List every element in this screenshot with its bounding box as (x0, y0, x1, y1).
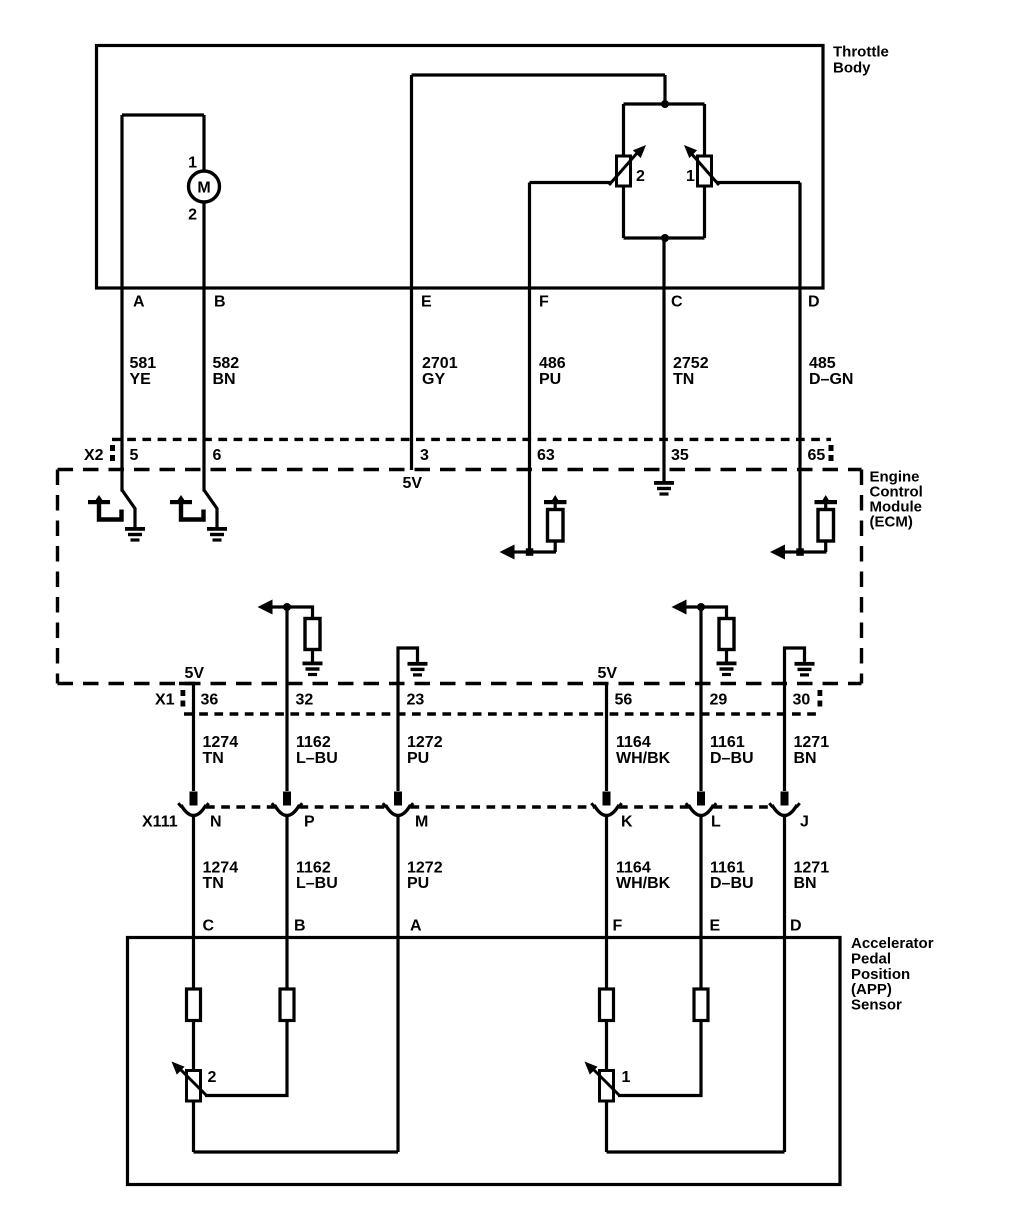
Throttle Body box (97, 46, 824, 289)
svg-text:F: F (539, 294, 549, 311)
node at pin 29 (697, 603, 705, 611)
svg-text:56: 56 (615, 692, 633, 709)
svg-text:BN: BN (213, 371, 236, 388)
svg-text:1161: 1161 (710, 734, 745, 751)
svg-text:X111: X111 (142, 814, 178, 831)
svg-text:Body: Body (833, 59, 871, 76)
svg-text:PU: PU (539, 371, 561, 388)
svg-text:TN: TN (203, 750, 224, 767)
svg-text:1274: 1274 (203, 734, 239, 751)
driver at pin 6: control arrow (177, 495, 185, 501)
potentiometer TP2 wiper arrow (609, 152, 638, 185)
wire K to APP F (605, 816, 608, 989)
svg-text:1164: 1164 (616, 860, 651, 877)
svg-text:1272: 1272 (407, 734, 443, 751)
svg-text:5V: 5V (403, 475, 423, 492)
svg-text:1271: 1271 (794, 860, 830, 877)
connector X2 left end marks (110, 445, 115, 451)
svg-text:485: 485 (809, 355, 836, 372)
potentiometer TP1 body (698, 156, 712, 186)
wire E top link (412, 73, 666, 76)
wire C vertical (662, 238, 665, 468)
pin 29 internal: top link (686, 607, 727, 619)
node at pin 63 (526, 548, 534, 556)
svg-text:L–BU: L–BU (296, 875, 338, 892)
APP Sensor box (128, 938, 841, 1185)
ECM dashed box right (860, 470, 863, 684)
wire 30 to X111 J (783, 714, 786, 791)
svg-text:486: 486 (539, 355, 566, 372)
svg-text:1: 1 (188, 155, 197, 172)
svg-text:B: B (294, 918, 306, 935)
svg-text:PU: PU (407, 750, 429, 767)
svg-text:L–BU: L–BU (296, 750, 338, 767)
wire D vertical (798, 183, 801, 553)
svg-text:B: B (214, 294, 226, 311)
connector X111 terminal L (686, 792, 716, 816)
svg-text:BN: BN (794, 875, 817, 892)
5V tick at pin 36 (179, 682, 196, 685)
wire A (120, 115, 123, 492)
svg-text:36: 36 (201, 692, 219, 709)
svg-text:D–BU: D–BU (710, 875, 754, 892)
svg-text:1161: 1161 (710, 860, 745, 877)
svg-text:E: E (710, 918, 721, 935)
wire from pin 36 (192, 684, 195, 715)
ECM dashed box left (56, 470, 59, 684)
wire F to D link (607, 1150, 785, 1153)
pin 63 pull-up: B+ bar (544, 500, 567, 504)
wire A-B top link (122, 113, 204, 116)
ground at pin 35 (654, 481, 674, 496)
wire C lower (192, 1101, 195, 1152)
pin 29 internal: left arrow (672, 600, 687, 615)
svg-text:P: P (304, 814, 315, 831)
connector X111 terminal N (178, 792, 208, 816)
driver at pin 6: bracket (181, 503, 204, 520)
ground at pin 32 resistor (303, 662, 323, 677)
TPS loop left (622, 104, 625, 238)
svg-text:581: 581 (130, 355, 157, 372)
svg-text:WH/BK: WH/BK (616, 750, 671, 767)
svg-text:J: J (800, 814, 809, 831)
svg-text:YE: YE (130, 371, 152, 388)
wire E to wiper (618, 1021, 701, 1096)
driver at pin 5: control arrow (95, 495, 103, 501)
connector X2 dotted line (112, 438, 831, 441)
pin 23 internal: wire to ground (398, 648, 418, 714)
connector X111 terminal M (383, 792, 413, 816)
connector X2 right end marks (829, 445, 834, 451)
pin 32 internal: wire (285, 607, 288, 714)
svg-text:F: F (613, 918, 623, 935)
connector X111 dotted line (206, 805, 275, 808)
potentiometer APP1 wiper arrow (594, 1070, 619, 1095)
svg-text:2: 2 (208, 1069, 217, 1086)
wire F lower (605, 1101, 608, 1152)
wire P to APP B (285, 816, 288, 989)
wire 56 to X111 K (605, 714, 608, 791)
svg-text:X1: X1 (155, 692, 175, 709)
wire F vertical (528, 183, 531, 553)
wire D horizontal (716, 181, 800, 184)
connector X1 right end marks (818, 690, 823, 696)
svg-text:A: A (410, 918, 422, 935)
pin 65 pull-up: resistor R (824, 504, 827, 552)
connector X1 dotted line (184, 712, 817, 715)
connector X111 terminal P (272, 792, 302, 816)
pin 65 pull-up: B+ arrow (822, 495, 830, 502)
driver at pin 6: control bar (170, 500, 192, 504)
svg-text:M: M (197, 180, 210, 197)
svg-text:2701: 2701 (422, 355, 458, 372)
wire from pin 56 (605, 684, 608, 715)
wire E vertical (410, 75, 413, 470)
wire L to APP E (699, 816, 702, 989)
svg-text:M: M (415, 814, 428, 831)
svg-text:1272: 1272 (407, 860, 443, 877)
pin 63 pull-up: wire and link (530, 550, 557, 553)
svg-text:32: 32 (296, 692, 314, 709)
wire 32 to X111 P (285, 714, 288, 791)
svg-text:3: 3 (420, 447, 429, 464)
wire F horizontal (530, 181, 613, 184)
wire B lower (202, 202, 205, 492)
svg-text:X2: X2 (84, 447, 104, 464)
svg-text:1274: 1274 (203, 860, 239, 877)
svg-text:D–GN: D–GN (809, 371, 853, 388)
wire B upper (202, 115, 205, 171)
driver at pin 6: slant wire (204, 490, 217, 527)
ground at pin 5 driver (125, 527, 145, 542)
svg-text:2752: 2752 (673, 355, 709, 372)
potentiometer APP2 body (187, 1071, 201, 1102)
svg-text:5V: 5V (598, 665, 618, 682)
svg-text:GY: GY (422, 371, 445, 388)
svg-text:C: C (203, 918, 215, 935)
wire E drop to TPS (663, 75, 666, 104)
wire N to APP C (192, 816, 195, 989)
svg-text:WH/BK: WH/BK (616, 875, 671, 892)
ECM dashed box top (58, 468, 862, 471)
svg-text:2: 2 (636, 168, 645, 185)
wire 29 to X111 L (699, 714, 702, 791)
wire C mid (192, 1021, 195, 1071)
wire B to wiper (205, 1021, 287, 1096)
potentiometer TP2 body (617, 156, 631, 186)
node TPS bottom (661, 234, 669, 242)
svg-text:5V: 5V (185, 665, 205, 682)
svg-text:2: 2 (188, 207, 197, 224)
svg-text:(ECM): (ECM) (870, 513, 913, 530)
svg-text:582: 582 (213, 355, 240, 372)
svg-text:Sensor: Sensor (851, 996, 902, 1013)
wire C to A link (194, 1150, 399, 1153)
potentiometer APP1 body (600, 1071, 614, 1102)
svg-text:N: N (210, 814, 222, 831)
svg-text:1164: 1164 (616, 734, 651, 751)
pin 30 internal: wire to ground (785, 648, 805, 714)
TPS loop bottom (624, 236, 705, 239)
resistor on wire E (694, 989, 708, 1021)
ground at pin 30 (795, 662, 815, 677)
svg-text:K: K (621, 814, 633, 831)
svg-text:BN: BN (794, 750, 817, 767)
TPS loop top (624, 102, 705, 105)
connector X111 terminal K (591, 792, 621, 816)
svg-text:1: 1 (686, 168, 695, 185)
wire J to APP D (783, 816, 786, 1152)
driver at pin 5: slant wire (122, 490, 135, 527)
pin 29 internal: wire (699, 607, 702, 714)
svg-text:1: 1 (622, 1069, 631, 1086)
ECM dashed box bottom (58, 682, 862, 685)
node TPS top (661, 100, 669, 108)
svg-text:L: L (711, 814, 721, 831)
wire F mid (605, 1021, 608, 1071)
svg-text:29: 29 (710, 692, 728, 709)
resistor on wire B (280, 989, 294, 1021)
svg-text:30: 30 (793, 692, 811, 709)
svg-text:C: C (671, 294, 683, 311)
ground at pin 29 resistor (717, 662, 737, 677)
svg-text:1271: 1271 (794, 734, 830, 751)
wire M to APP A (396, 816, 399, 1152)
svg-text:TN: TN (203, 875, 224, 892)
connector X111 terminal J (769, 792, 799, 816)
pin 63 pull-up: left arrow (500, 545, 515, 560)
svg-text:35: 35 (671, 447, 689, 464)
driver at pin 5: control bar (88, 500, 110, 504)
node at pin 32 (283, 603, 291, 611)
ground at pin 6 driver (207, 527, 227, 542)
svg-text:E: E (421, 294, 432, 311)
TPS loop right (703, 104, 706, 238)
driver at pin 5: bracket (99, 503, 122, 520)
svg-text:D: D (808, 294, 820, 311)
motor M (189, 171, 220, 202)
pin 29 internal: resistor R (719, 619, 734, 650)
pin 32 internal: left arrow (258, 600, 273, 615)
svg-text:D: D (790, 918, 802, 935)
svg-text:65: 65 (808, 447, 826, 464)
svg-text:TN: TN (673, 371, 694, 388)
potentiometer TP1 wiper arrow (690, 152, 719, 185)
pin 32 internal: resistor R (305, 619, 320, 650)
ground stub at pin 35 (662, 468, 665, 481)
resistor on wire C (187, 989, 201, 1021)
potentiometer APP2 wiper arrow (181, 1070, 206, 1095)
svg-text:A: A (133, 294, 145, 311)
svg-text:D–BU: D–BU (710, 750, 754, 767)
resistor on wire F (600, 989, 614, 1021)
connector X1 left end marks (181, 690, 186, 696)
node at pin 65 (796, 548, 804, 556)
pin 65 pull-up: left arrow (770, 545, 785, 560)
svg-text:6: 6 (213, 447, 222, 464)
svg-text:1162: 1162 (296, 860, 331, 877)
svg-text:63: 63 (537, 447, 555, 464)
pin 63 pull-up: B+ arrow (551, 495, 559, 502)
wire 23 to X111 M (396, 714, 399, 791)
ground at pin 23 (408, 662, 428, 677)
pin 65 pull-up: B+ bar (815, 500, 838, 504)
pin 63 pull-up: resistor R (554, 504, 557, 552)
svg-text:1162: 1162 (296, 734, 331, 751)
svg-text:5: 5 (130, 447, 139, 464)
wire 36 to X111 N (192, 714, 195, 791)
svg-text:23: 23 (407, 692, 425, 709)
pin 65 pull-up: wire and link (800, 550, 827, 553)
pin 32 internal: top link (272, 607, 313, 619)
svg-text:Throttle: Throttle (833, 43, 889, 60)
svg-text:PU: PU (407, 875, 429, 892)
